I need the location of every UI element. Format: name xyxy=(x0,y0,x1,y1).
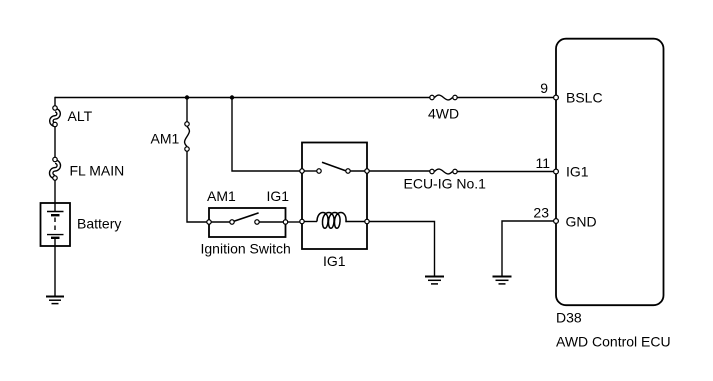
fuse AM1 xyxy=(185,122,190,151)
label FL MAIN xyxy=(70,163,125,179)
ground: relay coil ground xyxy=(425,277,444,284)
label pin number 9 xyxy=(540,80,548,96)
label pin number 11 xyxy=(535,155,550,171)
wire: top bus from battery rail to 4WD fuse xyxy=(55,97,432,99)
svg-text:IG1: IG1 xyxy=(566,164,589,180)
wire: relay to ECU-IG No.1 fuse xyxy=(370,170,433,172)
svg-text:AWD Control ECU: AWD Control ECU xyxy=(556,334,671,350)
label ALT xyxy=(68,108,93,124)
fusible link ALT xyxy=(51,106,58,127)
svg-text:FL MAIN: FL MAIN xyxy=(70,163,125,179)
wire: AM1 fuse to ignition switch xyxy=(187,152,207,223)
wire: AM1 branch down from bus xyxy=(186,98,188,122)
label 4WD xyxy=(428,106,459,122)
svg-text:11: 11 xyxy=(535,155,550,171)
wire: ECU-IG No.1 fuse to ECU pin 11 xyxy=(458,171,557,173)
node: junction at AM1 branch xyxy=(185,95,189,99)
wire: left rail bus corner down to ALT xyxy=(54,97,56,108)
label GND xyxy=(566,214,597,230)
wire: ignition switch IG1 to relay coil xyxy=(288,221,300,223)
wire: battery to ground xyxy=(54,246,56,297)
wire: FL MAIN to battery xyxy=(54,180,56,203)
label ECU-IG No.1 xyxy=(404,176,487,192)
node: junction at relay branch xyxy=(230,95,234,99)
wire: relay coil to ground xyxy=(370,222,435,277)
AWD Control ECU D38 connector box xyxy=(556,39,664,306)
label Battery xyxy=(77,216,121,232)
svg-text:IG1: IG1 xyxy=(323,253,346,269)
wire: ECU pin 23 GND to ground xyxy=(502,221,556,277)
pin 23 xyxy=(554,219,559,224)
svg-text:D38: D38 xyxy=(556,310,582,326)
svg-text:AM1: AM1 xyxy=(151,131,180,147)
svg-text:9: 9 xyxy=(540,80,548,96)
fuse 4WD xyxy=(430,95,457,100)
label AM1 fuse xyxy=(151,131,180,147)
relay IG1 xyxy=(300,143,369,250)
ignition switch xyxy=(207,208,288,237)
ground: ECU ground xyxy=(493,277,512,284)
svg-text:Ignition Switch: Ignition Switch xyxy=(201,241,291,257)
fuse ECU-IG No.1 xyxy=(430,169,457,174)
svg-text:ALT: ALT xyxy=(68,108,93,124)
wire: 4WD fuse to ECU pin 9 xyxy=(455,97,556,99)
label pin number 23 xyxy=(533,205,549,221)
svg-text:23: 23 xyxy=(533,205,549,221)
wire: ALT to FL MAIN xyxy=(54,127,56,157)
label IG1 pin xyxy=(566,164,589,180)
battery xyxy=(41,203,71,246)
wire: relay branch from bus down and right xyxy=(232,98,300,172)
svg-text:4WD: 4WD xyxy=(428,106,459,122)
label BSLC xyxy=(566,90,603,106)
label IG1 relay xyxy=(323,253,346,269)
label IG1 terminal xyxy=(267,188,290,204)
ground: battery ground xyxy=(46,297,64,304)
svg-text:BSLC: BSLC xyxy=(566,90,603,106)
label AM1 terminal xyxy=(207,188,236,204)
label AWD Control ECU xyxy=(556,334,671,350)
svg-text:GND: GND xyxy=(566,214,597,230)
svg-text:IG1: IG1 xyxy=(267,188,290,204)
svg-text:AM1: AM1 xyxy=(207,188,236,204)
svg-text:ECU-IG No.1: ECU-IG No.1 xyxy=(404,176,487,192)
label Ignition Switch xyxy=(201,241,291,257)
label D38 xyxy=(556,310,582,326)
pin 11 xyxy=(554,169,559,174)
fusible link FL MAIN xyxy=(51,157,59,180)
svg-text:Battery: Battery xyxy=(77,216,121,232)
pin 9 xyxy=(554,95,559,100)
